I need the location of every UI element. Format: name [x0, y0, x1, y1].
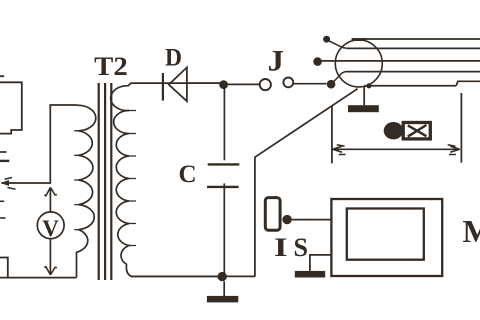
svg-text:C: C [179, 161, 197, 188]
svg-text:V: V [42, 216, 59, 241]
svg-text:D: D [165, 44, 182, 71]
svg-text:J: J [268, 44, 285, 77]
svg-text:I: I [274, 233, 288, 262]
svg-text:M: M [463, 213, 480, 249]
svg-text:S: S [294, 233, 309, 262]
svg-text:T2: T2 [94, 52, 128, 81]
